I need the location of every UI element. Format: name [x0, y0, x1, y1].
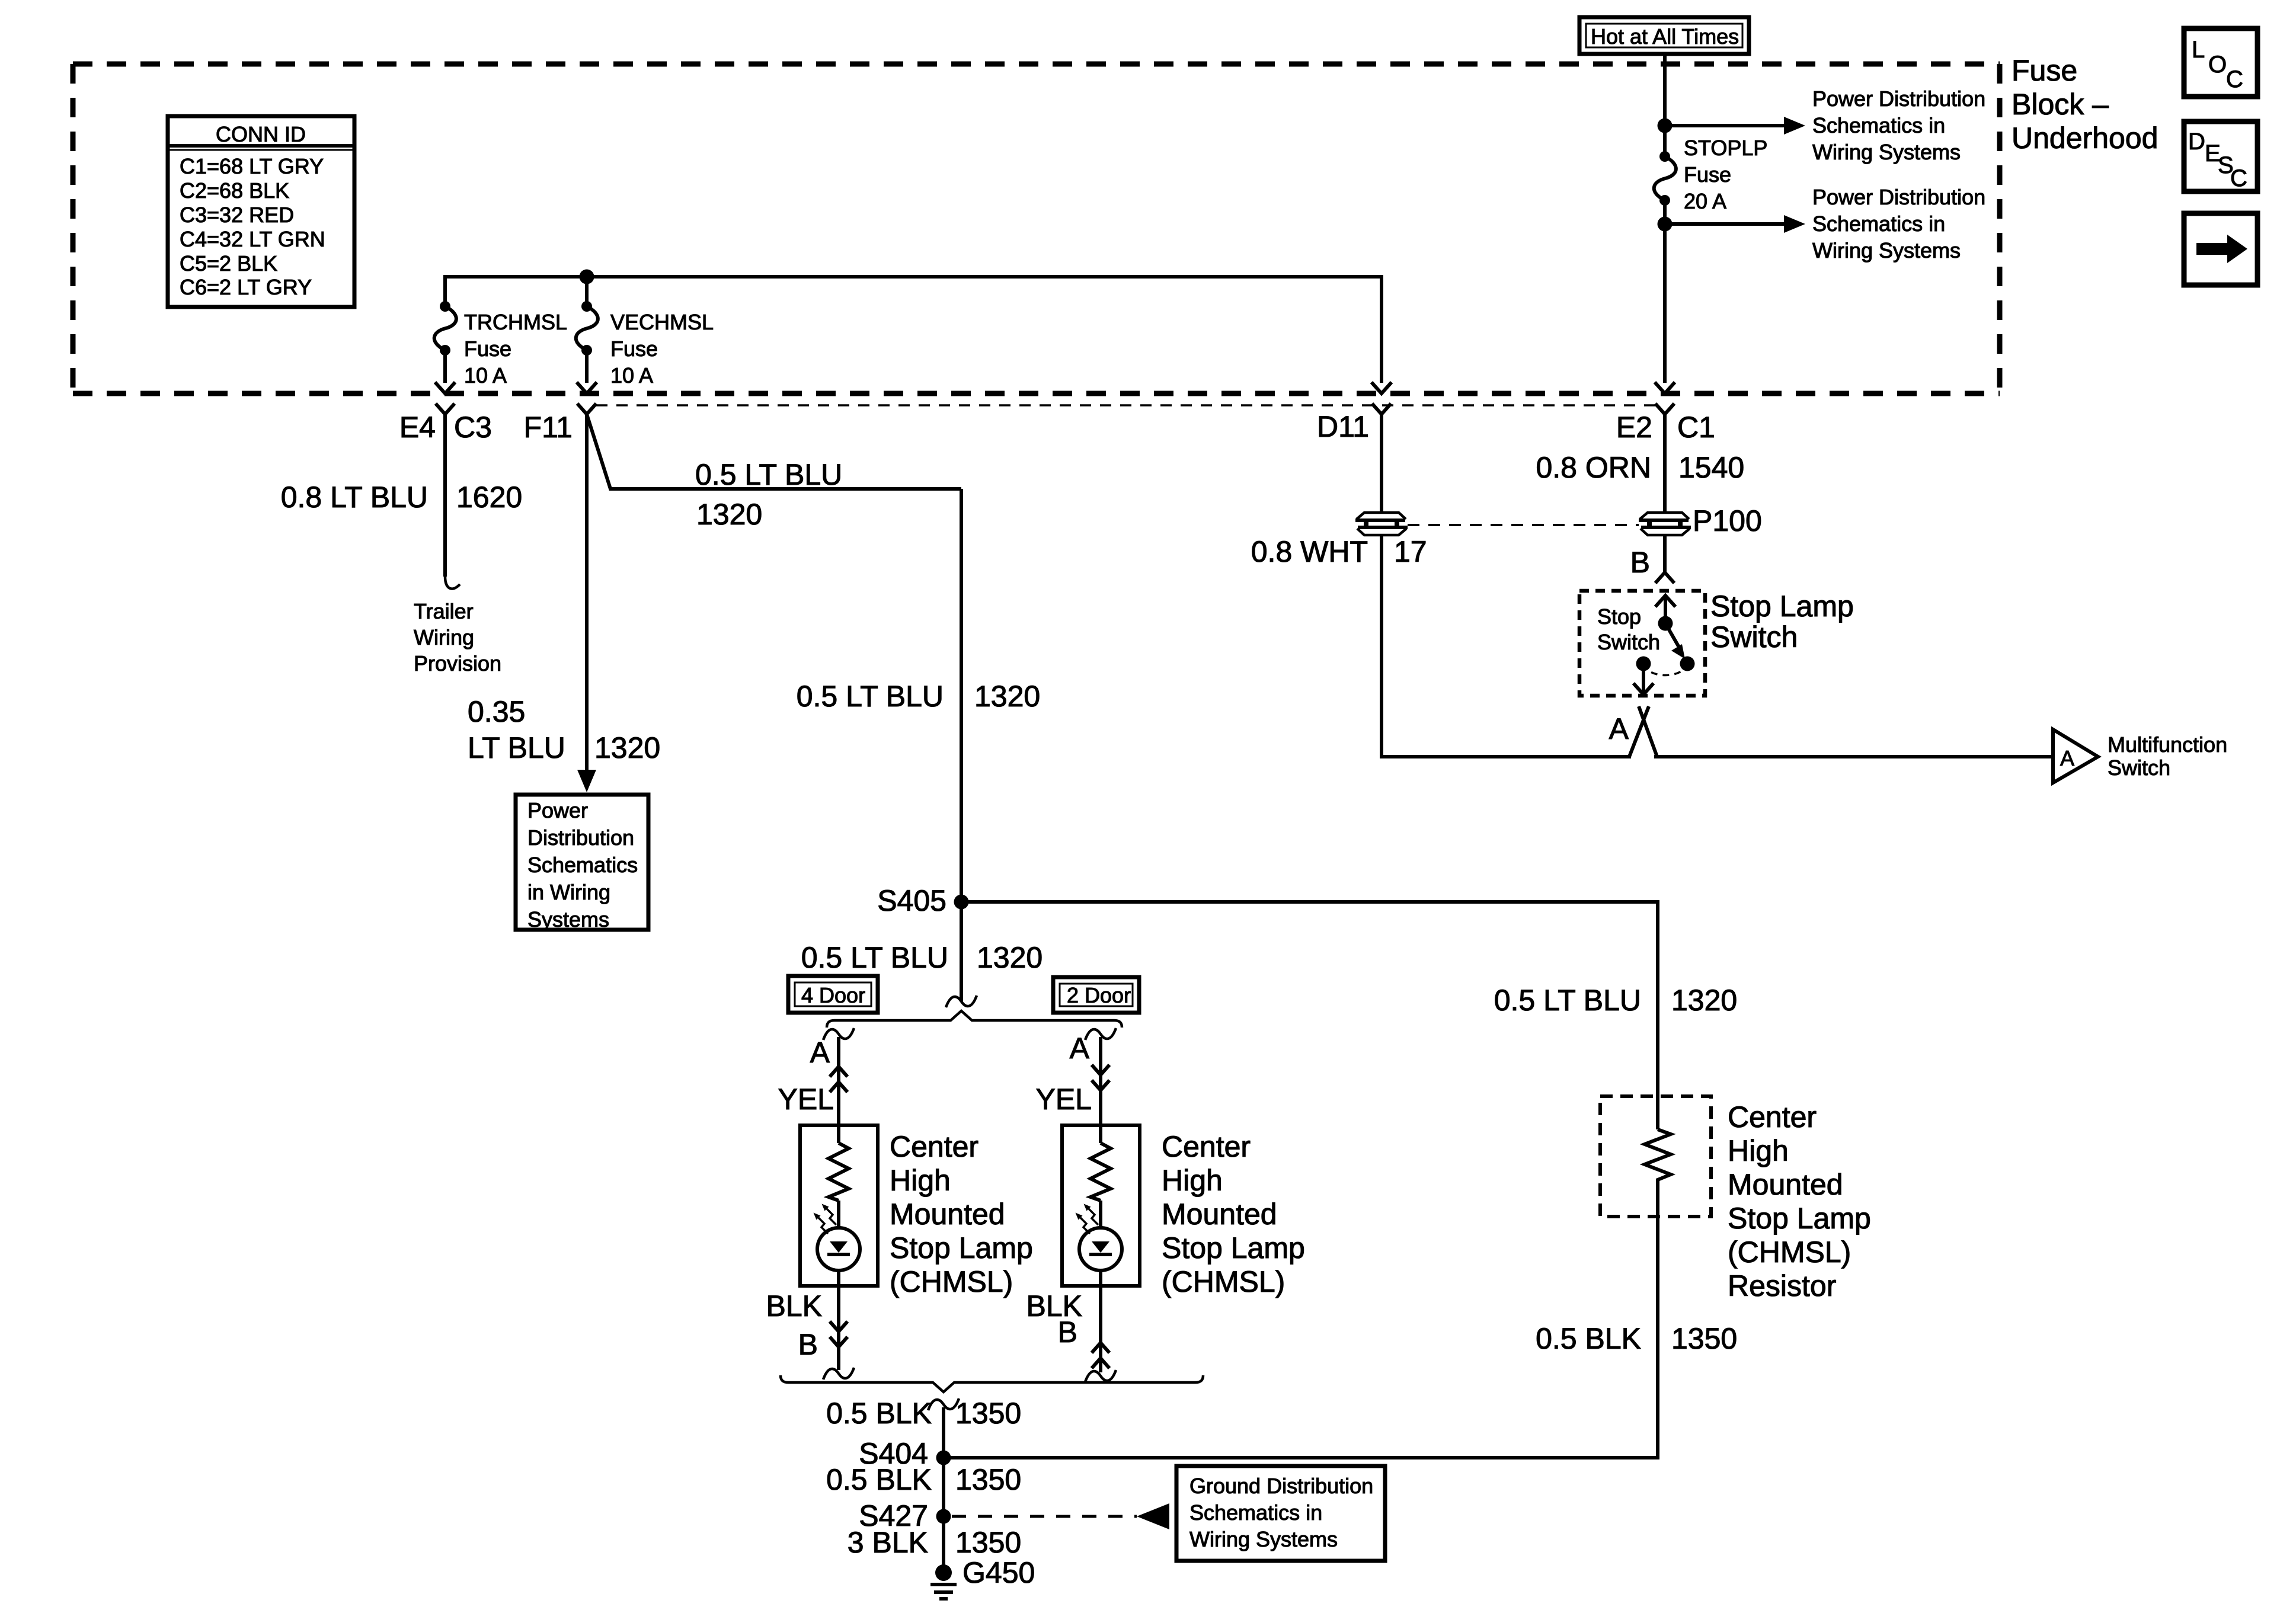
CHMSL resistor dashed box	[1600, 1096, 1711, 1217]
svg-text:Systems: Systems	[527, 907, 609, 932]
svg-text:1320: 1320	[1671, 984, 1737, 1017]
connector D11	[1372, 404, 1391, 414]
svg-text:1540: 1540	[1678, 451, 1744, 484]
svg-text:Hot at All Times: Hot at All Times	[1591, 24, 1739, 49]
svg-text:(CHMSL): (CHMSL)	[890, 1265, 1013, 1298]
svg-text:Ground Distribution: Ground Distribution	[1189, 1474, 1373, 1498]
svg-text:0.8 LT BLU: 0.8 LT BLU	[281, 481, 428, 514]
switch output arrow	[1642, 664, 1645, 692]
fuse VECHMSL 10A	[576, 301, 598, 356]
connector E2-C1	[1655, 404, 1674, 414]
wire break tilde below brace	[928, 1398, 959, 1410]
wire top bus	[445, 277, 1382, 383]
svg-text:CONN ID: CONN ID	[216, 122, 306, 146]
svg-text:YEL: YEL	[778, 1083, 834, 1116]
svg-text:O: O	[2208, 52, 2227, 78]
connector A crossing	[1629, 706, 1657, 757]
svg-text:Block –: Block –	[2012, 88, 2109, 121]
svg-text:0.5 BLK: 0.5 BLK	[826, 1463, 932, 1496]
node S404	[936, 1451, 951, 1465]
wire break tilde top left	[823, 1028, 854, 1040]
svg-text:0.5 BLK: 0.5 BLK	[1536, 1322, 1641, 1355]
wire E2/C1 to P100	[1663, 414, 1667, 512]
svg-text:Multifunction: Multifunction	[2108, 732, 2227, 757]
power distribution box	[516, 795, 648, 930]
wire TRCHMSL below	[443, 350, 447, 383]
svg-text:0.5 LT BLU: 0.5 LT BLU	[797, 680, 944, 713]
svg-text:0.8 ORN: 0.8 ORN	[1536, 451, 1651, 484]
ground G450	[935, 1564, 952, 1581]
node S427	[936, 1509, 951, 1524]
wire down to lamp	[837, 1037, 840, 1125]
svg-text:Power Distribution: Power Distribution	[1812, 185, 1985, 209]
svg-text:D: D	[2188, 129, 2205, 155]
svg-text:C1: C1	[1677, 411, 1715, 444]
wire VECHMSL below	[585, 350, 589, 383]
wire ground chain	[942, 1407, 945, 1571]
wire 0.5 LT BLU vertical to S405	[960, 489, 963, 1001]
svg-text:Underhood: Underhood	[2012, 121, 2158, 155]
svg-text:1320: 1320	[696, 498, 762, 531]
svg-text:C3=32 RED: C3=32 RED	[180, 203, 294, 227]
wire below connector	[1382, 536, 1631, 757]
svg-text:Schematics in: Schematics in	[1812, 113, 1945, 137]
inline connector right P100	[1639, 513, 1691, 535]
svg-text:D11: D11	[1317, 410, 1369, 443]
svg-text:Trailer: Trailer	[414, 599, 474, 623]
CHMSL lamp right box	[1062, 1125, 1140, 1286]
svg-text:C: C	[2230, 165, 2247, 191]
wire to multifunction switch	[1654, 755, 2053, 758]
connector double chevron down right	[1092, 1065, 1109, 1090]
svg-text:0.8 WHT: 0.8 WHT	[1251, 535, 1368, 568]
svg-text:Fuse: Fuse	[1684, 162, 1731, 187]
conn id table	[168, 116, 354, 307]
svg-text:C5=2 BLK: C5=2 BLK	[180, 251, 277, 276]
wire down to lamp	[1099, 1037, 1102, 1125]
svg-text:High: High	[1728, 1134, 1789, 1167]
svg-text:Distribution: Distribution	[527, 825, 634, 850]
svg-text:B: B	[1630, 546, 1650, 579]
svg-text:0.5 BLK: 0.5 BLK	[826, 1397, 932, 1430]
fuse block label	[2012, 54, 2158, 155]
svg-text:17: 17	[1394, 535, 1427, 568]
svg-text:L: L	[2192, 37, 2205, 63]
svg-text:Switch: Switch	[1710, 620, 1798, 654]
wire VECHMSL drop	[585, 277, 589, 306]
svg-text:VECHMSL: VECHMSL	[610, 310, 714, 334]
CHMSL lamp left box	[800, 1125, 878, 1286]
switch contact right	[1680, 657, 1695, 671]
svg-text:C: C	[2226, 66, 2243, 92]
svg-text:Fuse: Fuse	[2012, 54, 2077, 87]
switch pivot	[1658, 616, 1673, 631]
wire break tilde above brace	[946, 996, 977, 1007]
svg-text:in Wiring: in Wiring	[527, 880, 610, 904]
switch contact left	[1636, 657, 1651, 671]
svg-text:Switch: Switch	[2108, 756, 2170, 780]
svg-text:Wiring Systems: Wiring Systems	[1812, 238, 1961, 263]
svg-text:Stop: Stop	[1597, 604, 1641, 629]
svg-text:Schematics in: Schematics in	[1189, 1500, 1322, 1525]
svg-text:Stop Lamp: Stop Lamp	[890, 1231, 1033, 1265]
svg-text:G450: G450	[962, 1556, 1035, 1589]
switch arm up arrow	[1664, 597, 1667, 623]
svg-text:A: A	[2060, 746, 2074, 770]
svg-text:Mounted: Mounted	[1728, 1168, 1843, 1201]
wire fuse output down to connector C1	[1663, 224, 1667, 383]
switch blade	[1665, 623, 1680, 648]
wire feed to fuse	[1663, 126, 1667, 156]
svg-text:0.5 LT BLU: 0.5 LT BLU	[801, 941, 948, 974]
svg-text:1320: 1320	[977, 941, 1043, 974]
connector F11	[577, 404, 596, 414]
wire 0.8 LT BLU 1620	[443, 414, 447, 577]
svg-text:Center: Center	[890, 1130, 978, 1163]
svg-text:C6=2 LT GRY: C6=2 LT GRY	[180, 275, 312, 299]
svg-text:E4: E4	[399, 411, 436, 444]
svg-text:0.5 LT BLU: 0.5 LT BLU	[1494, 984, 1641, 1017]
stop lamp switch dashed box	[1579, 591, 1705, 696]
node VECHMSL tap	[580, 270, 594, 284]
svg-text:B: B	[798, 1328, 818, 1361]
svg-text:Power Distribution: Power Distribution	[1812, 87, 1985, 111]
svg-text:S405: S405	[877, 884, 946, 917]
svg-text:Stop Lamp: Stop Lamp	[1710, 590, 1854, 623]
wire end hook trailer provision	[445, 577, 460, 589]
node junction arrow1	[1658, 119, 1673, 133]
svg-text:0.5 LT BLU: 0.5 LT BLU	[695, 458, 842, 491]
fuse block underhood dashed outline	[73, 64, 2000, 393]
brace lower	[781, 1375, 1203, 1392]
svg-text:LT BLU: LT BLU	[468, 731, 565, 764]
resistor element	[1645, 1129, 1671, 1183]
connector B female	[1655, 572, 1674, 583]
svg-text:1350: 1350	[955, 1397, 1021, 1430]
wire D11 down	[1380, 414, 1383, 512]
svg-text:P100: P100	[1693, 504, 1762, 537]
multifunction switch triangle	[2053, 729, 2098, 783]
brace upper	[827, 1011, 1122, 1028]
svg-text:1350: 1350	[955, 1463, 1021, 1496]
connector E4-C3	[436, 404, 455, 414]
svg-text:Mounted: Mounted	[1162, 1198, 1277, 1231]
wire break tilde top right	[1085, 1028, 1116, 1040]
node S405	[954, 895, 969, 910]
svg-text:Wiring Systems: Wiring Systems	[1189, 1527, 1338, 1551]
svg-text:E2: E2	[1616, 411, 1652, 444]
svg-text:A: A	[1070, 1032, 1090, 1065]
wire diagonal from F11	[587, 414, 961, 489]
svg-text:STOPLP: STOPLP	[1684, 136, 1767, 160]
svg-text:Fuse: Fuse	[610, 337, 658, 361]
svg-text:1320: 1320	[594, 731, 660, 764]
svg-text:A: A	[1609, 712, 1629, 745]
svg-text:Center: Center	[1162, 1130, 1251, 1163]
svg-text:1620: 1620	[456, 481, 522, 514]
svg-text:Switch: Switch	[1597, 630, 1660, 654]
svg-text:Provision: Provision	[414, 651, 501, 676]
ground distribution box	[1176, 1466, 1385, 1561]
wire hot feed	[1663, 54, 1667, 126]
svg-text:High: High	[1162, 1164, 1223, 1197]
svg-text:1320: 1320	[974, 680, 1040, 713]
inline connector dashes	[1408, 524, 1639, 526]
svg-text:3 BLK: 3 BLK	[848, 1526, 928, 1559]
wire to power distribution 1	[1665, 124, 1785, 127]
svg-text:High: High	[890, 1164, 951, 1197]
svg-text:Wiring: Wiring	[414, 625, 474, 649]
4 Door box	[788, 976, 878, 1013]
wire below fuse	[1663, 200, 1667, 224]
svg-text:Power: Power	[527, 798, 588, 822]
svg-text:(CHMSL): (CHMSL)	[1728, 1235, 1851, 1269]
dashed reference to ground distribution	[952, 1515, 1137, 1518]
svg-text:BLK: BLK	[766, 1289, 822, 1323]
svg-text:A: A	[810, 1036, 830, 1069]
arrow box	[2184, 213, 2257, 285]
fuse STOPLP 20A	[1654, 151, 1676, 206]
svg-text:C4=32 LT GRN: C4=32 LT GRN	[180, 227, 325, 251]
svg-text:F11: F11	[524, 411, 573, 444]
svg-text:Schematics: Schematics	[527, 853, 638, 877]
node junction arrow2	[1658, 217, 1673, 232]
inline connector left	[1355, 513, 1408, 535]
harness dashed line	[596, 404, 1655, 406]
switch travel dashed arc	[1643, 664, 1687, 676]
fuse TRCHMSL 10A	[434, 301, 456, 356]
2 Door box	[1053, 977, 1139, 1013]
svg-text:Schematics in: Schematics in	[1812, 212, 1945, 236]
LOC box	[2184, 28, 2257, 97]
svg-text:YEL: YEL	[1035, 1083, 1092, 1116]
wire 0.35 LT BLU 1320 down	[585, 414, 589, 770]
svg-text:Fuse: Fuse	[464, 337, 511, 361]
svg-text:Stop Lamp: Stop Lamp	[1728, 1202, 1871, 1235]
wire to power distribution 2	[1665, 222, 1785, 226]
svg-text:1350: 1350	[1671, 1322, 1737, 1355]
svg-text:2 Door: 2 Door	[1067, 983, 1131, 1007]
svg-text:C2=68 BLK: C2=68 BLK	[180, 178, 289, 203]
svg-text:Stop Lamp: Stop Lamp	[1162, 1231, 1305, 1265]
svg-text:(CHMSL): (CHMSL)	[1162, 1265, 1285, 1298]
wire P100 to B	[1663, 536, 1667, 572]
hot at all times box	[1579, 17, 1749, 54]
svg-text:B: B	[1058, 1315, 1077, 1349]
DESC box	[2184, 121, 2257, 191]
svg-text:10 A: 10 A	[610, 363, 653, 388]
svg-text:Resistor: Resistor	[1728, 1269, 1836, 1302]
svg-text:0.35: 0.35	[468, 695, 525, 728]
svg-text:20 A: 20 A	[1684, 189, 1726, 213]
svg-text:TRCHMSL: TRCHMSL	[464, 310, 567, 334]
svg-text:C3: C3	[454, 411, 492, 444]
svg-text:Center: Center	[1728, 1100, 1817, 1134]
svg-text:4 Door: 4 Door	[801, 983, 865, 1007]
svg-text:Mounted: Mounted	[890, 1198, 1005, 1231]
svg-text:10 A: 10 A	[464, 363, 507, 388]
connector double chevron up left	[830, 1067, 848, 1092]
svg-text:Wiring Systems: Wiring Systems	[1812, 140, 1961, 164]
wire S405 right	[961, 902, 1658, 1129]
svg-text:1350: 1350	[955, 1526, 1021, 1559]
svg-text:C1=68 LT GRY: C1=68 LT GRY	[180, 154, 324, 178]
